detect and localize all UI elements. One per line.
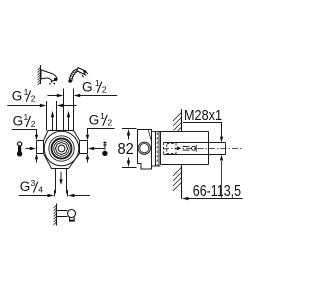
svg-text:G: G <box>12 88 23 103</box>
svg-text:2: 2 <box>31 119 36 129</box>
svg-text:2: 2 <box>107 118 112 128</box>
svg-text:2: 2 <box>102 85 107 95</box>
svg-text:3: 3 <box>31 178 36 188</box>
svg-text:G: G <box>82 79 93 94</box>
svg-text:1: 1 <box>24 87 29 97</box>
svg-text:G: G <box>89 112 100 127</box>
svg-text:1: 1 <box>100 111 105 121</box>
svg-text:G: G <box>13 114 24 129</box>
svg-text:1: 1 <box>95 78 100 88</box>
svg-text:4: 4 <box>38 185 43 195</box>
svg-text:M28x1: M28x1 <box>184 107 222 124</box>
svg-text:2: 2 <box>31 94 36 104</box>
svg-text:G: G <box>20 179 31 194</box>
svg-text:1: 1 <box>24 112 29 122</box>
svg-text:66-113,5: 66-113,5 <box>193 183 241 200</box>
svg-text:82: 82 <box>118 141 134 158</box>
